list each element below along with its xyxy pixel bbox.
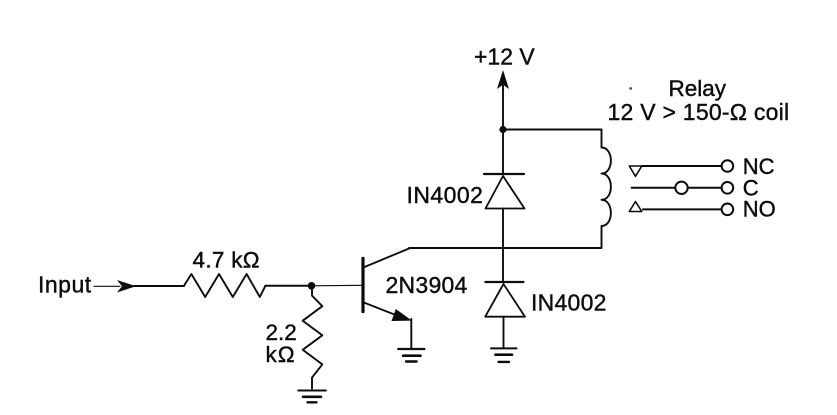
svg-text:+12 V: +12 V bbox=[474, 44, 535, 70]
svg-text:2N3904: 2N3904 bbox=[386, 272, 468, 298]
svg-text:kΩ: kΩ bbox=[266, 342, 296, 367]
svg-text:4.7 kΩ: 4.7 kΩ bbox=[193, 248, 260, 273]
svg-text:12 V > 150-Ω coil: 12 V > 150-Ω coil bbox=[608, 99, 790, 125]
svg-text:IN4002: IN4002 bbox=[531, 290, 607, 316]
svg-text:NO: NO bbox=[743, 197, 776, 222]
svg-text:IN4002: IN4002 bbox=[407, 182, 484, 208]
svg-text:Relay: Relay bbox=[669, 76, 727, 101]
svg-text:Input: Input bbox=[38, 272, 92, 298]
